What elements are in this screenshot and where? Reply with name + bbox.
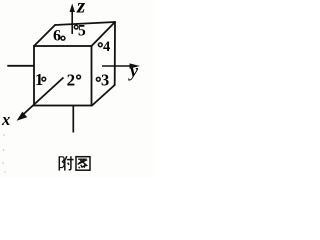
point 1 circle bbox=[42, 77, 46, 81]
svg-text:5: 5 bbox=[78, 22, 86, 39]
y-axis line bbox=[102, 65, 131, 67]
x-axis line (through front-bottom-left corner) bbox=[22, 78, 64, 116]
cube back-right vertical edge bbox=[114, 22, 116, 85]
z-axis line bbox=[71, 8, 73, 34]
cube top-left oblique edge bbox=[34, 25, 55, 46]
point 3 circle bbox=[96, 77, 100, 81]
svg-text:3: 3 bbox=[101, 71, 109, 90]
cube bottom-right oblique edge bbox=[92, 85, 115, 106]
svg-text:6: 6 bbox=[53, 27, 61, 44]
negative z-axis segment (below cube) bbox=[72, 106, 74, 133]
caption character 图 bbox=[76, 157, 90, 171]
point 5 circle bbox=[74, 25, 78, 29]
caption character 附 bbox=[59, 156, 73, 170]
z-axis arrowhead bbox=[70, 4, 75, 13]
cube front face bbox=[34, 46, 92, 106]
svg-text:z: z bbox=[76, 0, 86, 18]
point 6 circle bbox=[61, 36, 65, 40]
point 2 circle bbox=[77, 75, 81, 79]
cube top-right oblique edge bbox=[92, 22, 116, 46]
point 4 circle bbox=[98, 43, 102, 47]
negative y-axis segment (left) bbox=[7, 65, 34, 67]
x-axis arrowhead bbox=[17, 112, 28, 121]
svg-text:y: y bbox=[128, 61, 139, 81]
svg-text:x: x bbox=[1, 110, 10, 129]
y-axis arrowhead bbox=[130, 63, 141, 68]
svg-text:4: 4 bbox=[103, 39, 110, 55]
scan specks on left margin bbox=[2, 134, 5, 172]
cube back-top edge bbox=[55, 22, 115, 25]
svg-text:2: 2 bbox=[67, 70, 76, 89]
